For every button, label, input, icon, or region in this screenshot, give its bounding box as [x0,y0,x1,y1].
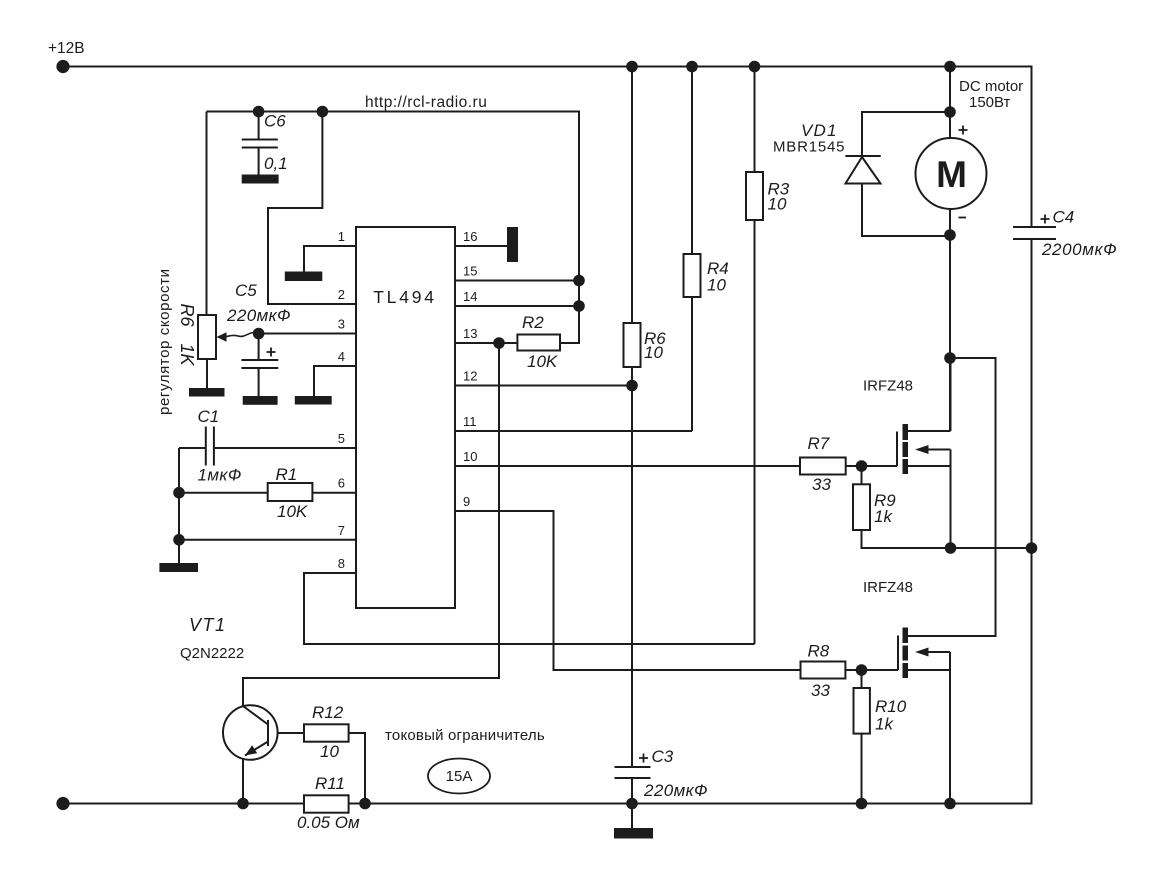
svg-text:11: 11 [463,414,477,429]
svg-text:http://rcl-radio.ru: http://rcl-radio.ru [365,94,487,111]
svg-text:2200мкФ: 2200мкФ [1041,240,1117,259]
svg-text:DC motor: DC motor [959,78,1023,95]
svg-text:1K: 1K [177,344,197,367]
svg-text:10: 10 [644,343,663,362]
svg-text:4: 4 [338,349,345,364]
svg-text:220мкФ: 220мкФ [226,306,291,325]
svg-text:TL494: TL494 [373,287,437,307]
svg-text:IRFZ48: IRFZ48 [863,378,913,395]
svg-text:12: 12 [463,369,477,384]
svg-text:5: 5 [338,431,345,446]
svg-text:15: 15 [463,264,477,279]
svg-text:R6: R6 [177,304,197,328]
svg-text:VT1: VT1 [189,615,227,635]
svg-text:13: 13 [463,326,477,341]
svg-text:0,1: 0,1 [264,154,288,173]
svg-text:C6: C6 [264,112,286,131]
svg-text:10K: 10K [527,352,558,371]
svg-text:16: 16 [463,229,477,244]
svg-text:10: 10 [463,449,477,464]
svg-text:+12В: +12В [48,40,85,57]
svg-text:1мкФ: 1мкФ [198,466,242,485]
svg-text:IRFZ48: IRFZ48 [863,579,913,596]
svg-text:R2: R2 [522,313,544,332]
svg-text:6: 6 [338,476,345,491]
svg-text:150Вт: 150Вт [969,94,1011,111]
svg-text:3: 3 [338,317,345,332]
svg-text:14: 14 [463,289,477,304]
svg-text:15A: 15A [446,768,473,785]
svg-text:10K: 10K [277,502,308,521]
svg-text:R10: R10 [875,697,907,716]
svg-text:MBR1545: MBR1545 [773,139,845,156]
svg-text:9: 9 [463,494,470,509]
svg-text:C1: C1 [198,407,220,426]
svg-text:33: 33 [811,681,830,700]
svg-text:10: 10 [707,276,726,295]
svg-text:VD1: VD1 [801,121,838,140]
svg-text:R1: R1 [276,465,298,484]
svg-text:10: 10 [768,195,787,214]
svg-text:1k: 1k [875,715,894,734]
svg-text:регулятор скорости: регулятор скорости [156,268,173,415]
svg-text:1k: 1k [874,507,893,526]
svg-text:Q2N2222: Q2N2222 [180,645,244,662]
svg-text:33: 33 [812,475,831,494]
svg-text:1: 1 [338,229,345,244]
svg-text:R12: R12 [312,703,344,722]
svg-text:10: 10 [320,742,339,761]
svg-text:M: M [936,154,967,195]
svg-text:8: 8 [338,556,345,571]
svg-text:токовый ограничитель: токовый ограничитель [385,727,545,744]
svg-text:R8: R8 [808,642,830,661]
svg-text:C4: C4 [1053,208,1075,227]
svg-text:R11: R11 [315,774,345,793]
svg-text:C5: C5 [235,281,257,300]
svg-text:220мкФ: 220мкФ [643,781,708,800]
svg-text:2: 2 [338,287,345,302]
svg-text:R7: R7 [808,434,830,453]
svg-text:0.05 Ом: 0.05 Ом [297,813,360,832]
svg-text:7: 7 [338,523,345,538]
svg-text:C3: C3 [652,747,674,766]
